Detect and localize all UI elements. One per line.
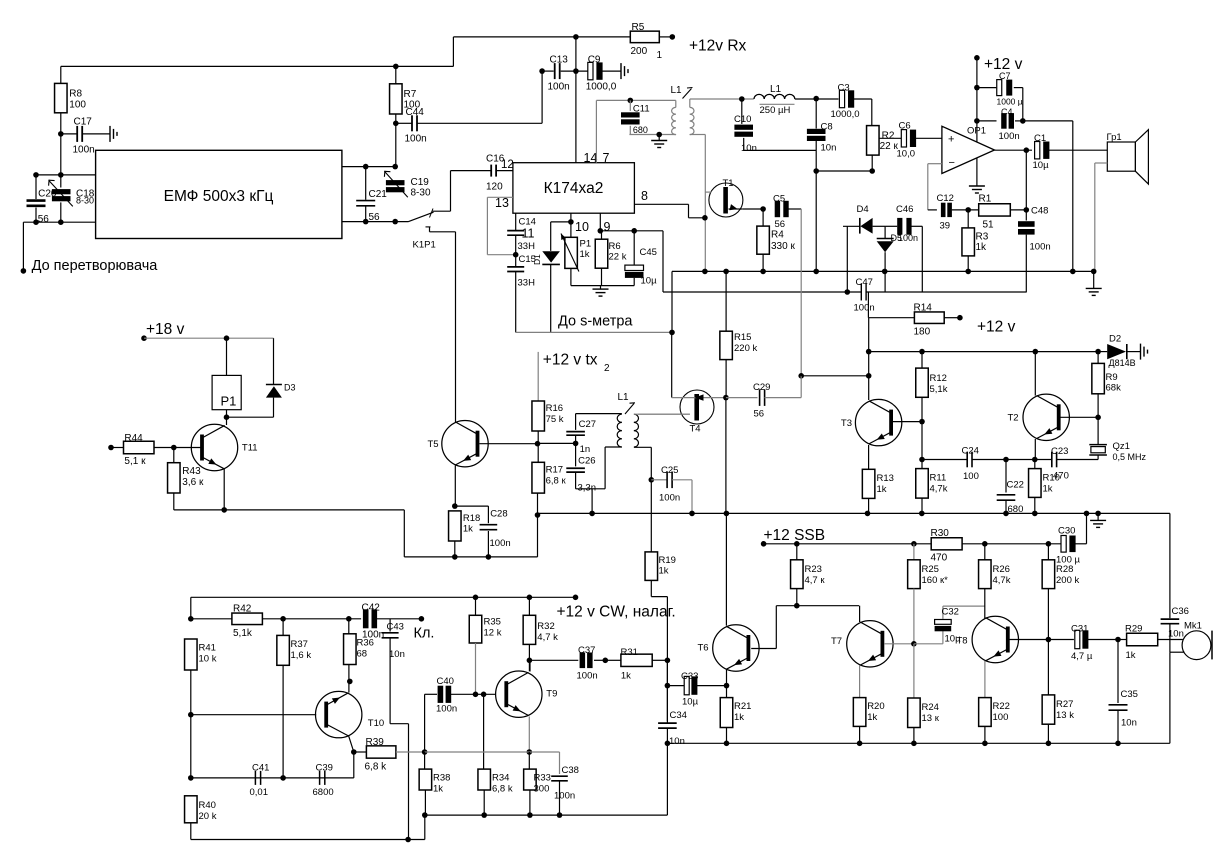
node R32 bottom [527,658,533,664]
svg-text:6800: 6800 [313,787,334,798]
node T3 collector mid [866,373,872,379]
node C47 left [845,289,851,295]
svg-text:C13: C13 [550,55,569,66]
wire s-meter drop [671,332,673,397]
capacitor C5 [773,194,801,231]
ground G2 at C9 [621,63,628,79]
svg-text:R6: R6 [609,241,621,252]
svg-text:1k: 1k [976,242,988,253]
label pin 8 [641,189,648,203]
resistor R38 [419,752,450,815]
svg-text:C4: C4 [1001,107,1013,117]
svg-text:T4: T4 [690,424,701,435]
svg-text:6,8 k: 6,8 k [492,784,513,795]
svg-text:5,1 к: 5,1 к [124,456,146,467]
node C19 bottom [392,219,398,225]
transistor T11 [191,424,257,470]
node R1 right [1024,207,1030,213]
node relay top [224,335,230,341]
svg-text:R43: R43 [182,466,201,477]
wire +12 rail right [869,351,1098,353]
wire R1 right [1010,209,1026,211]
capacitor C39 [313,763,334,799]
trimmer arrow L1 [683,88,693,99]
svg-text:D2: D2 [1109,334,1121,345]
svg-text:R33: R33 [534,773,551,784]
wire R12 node down [921,422,923,469]
capacitor C42 [362,603,422,641]
node T8 base [1046,637,1052,643]
node R25 top [911,541,917,547]
node C24 left [919,457,925,463]
speaker Gr1 [1107,130,1149,184]
svg-text:10n: 10n [821,143,837,154]
wire bus right extension [1098,513,1170,618]
svg-text:1: 1 [657,50,663,61]
svg-text:1k: 1k [877,484,887,495]
node bus speaker gnd [1091,269,1097,275]
capacitor C1 [995,133,1108,171]
node +12v Rx terminal [670,34,676,40]
svg-text:100: 100 [69,100,86,111]
label +12 v mid [977,319,1016,336]
resistor R19 [645,552,676,581]
resistor R6 [595,231,626,268]
wire T1 emitter [729,204,764,210]
node D5 bus1 [882,269,888,275]
svg-text:75 k: 75 k [546,414,564,425]
wire T6 base path [751,606,859,649]
svg-text:12: 12 [501,159,514,171]
resistor R27 [1042,695,1074,743]
node T10 emitter top [347,679,353,685]
wire T2 emitter [1034,439,1036,460]
resistor R5 [630,22,662,61]
capacitor C30 [1056,513,1087,565]
node converter terminal [21,268,27,274]
wire R42 to C42 [283,618,361,620]
svg-text:51: 51 [983,220,995,231]
svg-text:C43: C43 [387,622,404,633]
wire bottom rail B [191,823,425,840]
node Kl terminal [419,616,425,622]
svg-text:C33: C33 [681,671,698,682]
svg-text:R7: R7 [404,89,417,100]
wire R14 rail [868,318,870,352]
svg-text:К174ха2: К174ха2 [544,180,604,197]
resistor R18 [449,511,481,557]
svg-text:R25: R25 [922,564,939,575]
capacitor C20 [27,175,57,225]
wire C40 left drop [424,694,426,752]
svg-text:C26: C26 [578,456,595,467]
svg-text:C25: C25 [661,465,678,476]
svg-text:C5: C5 [773,194,785,205]
node C44 top [539,68,545,74]
capacitor C46 [896,204,922,243]
node C33 right [724,683,730,689]
node C1 out junction [1024,147,1030,153]
svg-text:10n: 10n [1121,718,1137,729]
svg-text:R13: R13 [877,473,894,484]
node C5 left [760,206,766,212]
label +12 v top [984,56,1023,73]
svg-text:R38: R38 [433,773,450,784]
node R23 bottom [794,603,800,609]
svg-text:C44: C44 [406,107,425,118]
wire pin10 to D1 [551,221,571,223]
wire C37 line [529,659,578,661]
wire pin9 [599,213,601,231]
node micbus R24 [911,741,917,747]
svg-text:2: 2 [604,363,610,374]
wire C11 bottom [629,134,675,136]
svg-text:C17: C17 [74,117,93,128]
svg-text:C41: C41 [252,763,269,774]
label pin 7 [603,151,610,165]
svg-text:120: 120 [486,182,503,193]
wire C46 down [921,226,923,292]
svg-text:L1: L1 [671,85,683,96]
node T2 collector top [1033,349,1039,355]
wire rail step down [404,510,537,557]
node T10 base rail [188,712,194,718]
resistor R42 [191,604,283,640]
node bus C4 [1070,269,1076,275]
ground G7 bus right [1086,271,1102,295]
svg-text:5,1k: 5,1k [930,384,948,395]
svg-text:R11: R11 [930,473,947,484]
svg-text:R44: R44 [124,433,143,444]
node bus C30 [1084,511,1090,517]
svg-text:8: 8 [641,189,648,203]
wire speaker return [1095,163,1108,271]
svg-text:13 k: 13 k [1056,710,1074,721]
wire R17 to bus [537,493,539,515]
svg-text:P1: P1 [580,239,592,250]
node C33 left [665,683,671,689]
svg-text:100n: 100n [577,671,598,682]
switch K1P1 lower contact [426,227,456,232]
wire pin9 line [600,230,663,232]
node pin10 [568,219,574,225]
svg-text:До перетворювача: До перетворювача [32,258,159,274]
svg-text:100n: 100n [405,133,427,144]
capacitor C11 [621,100,650,135]
label C26 [578,456,595,467]
arrow T4 emitter [695,394,704,400]
resistor R10 [1029,460,1060,514]
svg-text:10 k: 10 k [199,654,217,665]
svg-text:+12 v CW, налаг.: +12 v CW, налаг. [557,604,676,621]
wire T3 base [893,421,922,423]
node bus C25 [689,511,695,517]
label +12v Rx [689,38,747,55]
node C28 rail [486,554,492,560]
wire mic return [1170,652,1185,743]
wire C43 jog down [390,724,408,840]
svg-text:10n: 10n [669,736,685,747]
node bus C8 [813,269,819,275]
svg-text:+12 SSB: +12 SSB [764,527,826,544]
capacitor C41 [250,763,270,799]
wire rail to bus riser [537,516,539,557]
svg-text:1k: 1k [463,524,473,535]
wire C44 riser [541,71,543,123]
svg-text:1n: 1n [580,444,591,455]
svg-text:R31: R31 [621,647,638,658]
wire T5 base [480,443,538,445]
node T3 rail left [866,349,872,355]
transistor T2 [1008,394,1070,440]
wire op-amp V+ and ground [976,58,978,182]
svg-text:8-30: 8-30 [76,196,94,206]
node T7 base [911,641,917,647]
node R39 left [351,749,357,755]
capacitor C37 [577,645,606,682]
node T5 base junction [535,441,541,447]
node C13 junction [573,68,579,74]
resistor R41 [185,639,217,670]
relay P1 box [212,375,241,409]
svg-text:0,5 MHz: 0,5 MHz [1113,452,1147,462]
wire R14 riser [868,292,914,318]
label pin 10 [575,220,589,234]
node C27-C26 junction [573,441,579,447]
wire C5 line to T3 [801,376,869,398]
node C20 bottom [33,219,39,225]
node s-meter bus1 [669,330,675,336]
node T11 emitter rail [221,507,227,513]
svg-text:R19: R19 [659,555,676,566]
svg-text:160 к*: 160 к* [922,575,949,586]
resistor R9 [1092,352,1121,418]
svg-text:200 k: 200 k [1056,575,1079,586]
capacitor C13 [542,55,588,93]
resistor R14 [914,303,945,338]
svg-text:C31: C31 [1071,624,1088,635]
wire R41 down [190,670,192,778]
node bus R15 [723,269,729,275]
svg-text:13 к: 13 к [922,713,940,724]
svg-text:R27: R27 [1056,699,1073,710]
node rail B C43 [405,837,411,843]
svg-text:39: 39 [940,221,951,232]
svg-text:C45: C45 [640,247,657,258]
svg-text:R21: R21 [734,701,751,712]
svg-text:1,6 k: 1,6 k [291,650,312,661]
wire +12vtx [537,352,539,401]
wire EMF right upper stub [342,166,395,168]
wire bus2 [663,291,861,293]
wire T11 emitter rail [174,469,404,510]
wire L1 sec bottom to T1 base [690,135,706,272]
wire rail A [425,814,668,816]
wire T10 coll to C41 line [353,752,355,778]
resistor R2 [867,126,899,156]
svg-text:+12v Rx: +12v Rx [689,38,747,55]
svg-text:330 к: 330 к [771,241,795,252]
node T11 base [171,445,177,451]
label C15 [519,254,536,265]
wire R25 node down [913,644,915,698]
node R12 top [919,349,925,355]
svg-text:6,8 к: 6,8 к [546,476,567,487]
svg-text:R17: R17 [546,465,563,476]
wire ssb rail right [962,543,1063,545]
svg-text:C1: C1 [1034,133,1046,144]
svg-text:T10: T10 [368,718,384,729]
ground G6 at D2 [1141,344,1148,360]
svg-text:T7: T7 [831,636,842,647]
wire switch to C16 [432,171,491,212]
svg-text:C10: C10 [734,114,751,125]
capacitor C12 [928,193,979,232]
svg-text:1k: 1k [1043,484,1053,495]
resistor R44 [111,433,202,467]
resistor R3 [962,210,989,272]
node C41 line left [188,775,194,781]
wire T7 collector [859,606,861,622]
wire R34 feed [483,694,485,769]
svg-text:C23: C23 [1051,446,1068,457]
svg-text:R2: R2 [882,131,895,142]
svg-text:C14: C14 [519,217,536,228]
capacitor C32 [914,606,985,644]
resistor R40 [185,796,217,823]
svg-text:200: 200 [631,46,648,57]
wire lower bus [538,512,1099,514]
svg-text:4,7k: 4,7k [930,484,948,495]
node bus gnd right [1095,511,1101,517]
wire T11 collector [223,424,225,427]
svg-text:33Н: 33Н [518,278,536,289]
node bus R11 [919,511,925,517]
wire T10 collector [349,736,354,752]
wire upper left stub [36,174,96,176]
svg-text:470: 470 [931,553,948,564]
node R39-C40 junction [422,749,428,755]
wire op-amp minus [928,164,942,210]
svg-text:100: 100 [963,471,979,482]
ground G4 below R6 [593,286,609,297]
capacitor C19 trimmer [384,171,431,199]
node C8 top [813,96,819,102]
svg-text:C27: C27 [579,419,596,430]
svg-text:3,3n: 3,3n [578,483,597,494]
svg-text:1k: 1k [580,249,590,260]
svg-text:P1: P1 [221,394,237,409]
node C19 top [392,164,398,170]
svg-text:C19: C19 [411,177,430,188]
node C21 top [363,164,369,170]
resistor R34 [478,769,513,815]
node +12CW terminal [573,595,579,601]
wire T2 base [1061,416,1099,418]
wire D4 node [846,226,848,292]
node C10 top [739,96,745,102]
svg-text:C30: C30 [1058,526,1075,537]
wire pin8 [634,204,705,218]
transistor T1 [709,178,743,217]
svg-text:R16: R16 [546,403,563,414]
svg-text:K1P1: K1P1 [413,240,436,251]
node +12v mid terminal [957,315,963,321]
transistor T8 [957,616,1019,662]
node R32 top [527,595,533,601]
node C45 top [631,228,637,234]
svg-text:R28: R28 [1056,564,1073,575]
wire R14 right [944,317,960,319]
svg-text:10µ: 10µ [682,697,699,708]
svg-text:R10: R10 [1043,473,1060,484]
wire relay bottom [227,410,274,418]
ground G3 below C11 [651,135,667,148]
svg-text:C36: C36 [1172,606,1189,617]
ground G5 below op-amp [969,182,985,193]
label EMF [164,188,274,205]
node T1 base-pin8 junction [702,215,708,221]
svg-text:100n: 100n [854,303,875,314]
node micbus C35 [1115,741,1121,747]
wire T7 emitter [859,666,861,698]
svg-text:100n: 100n [554,791,575,802]
svg-text:10µ: 10µ [641,276,658,287]
wire T6 collector [725,513,727,625]
svg-text:+18 v: +18 v [146,321,185,338]
svg-text:C34: C34 [670,710,687,721]
svg-text:0,01: 0,01 [250,787,269,798]
svg-text:1k: 1k [734,712,744,723]
svg-text:4,7 µ: 4,7 µ [1071,651,1093,662]
svg-text:+12 v: +12 v [977,319,1016,336]
node micbus R20 [857,741,863,747]
wire R15 node down [725,398,727,514]
capacitor C43 [382,619,405,724]
node C17 junction [58,131,64,137]
svg-text:8-30: 8-30 [411,188,431,199]
svg-text:R30: R30 [931,528,950,539]
svg-text:12 k: 12 k [484,628,502,639]
svg-text:C7: C7 [999,71,1011,81]
node micbus C34 [665,741,671,747]
svg-text:220 k: 220 k [734,343,757,354]
node T2 emitter junction [1032,457,1038,463]
wire R39 right [396,751,425,753]
capacitor C17 [61,117,110,156]
wire pin14 vertical [575,37,577,163]
wire bus1 left drop [671,271,673,332]
wire C10 bottom to C8 [744,149,817,151]
node D2-R9 junction [1095,349,1101,355]
resistor R22 [979,698,1010,744]
wire C3 to R2 [871,99,873,126]
svg-text:100n: 100n [999,131,1020,142]
wire L3 sec top to T4 [634,413,690,415]
svg-text:56: 56 [775,219,786,230]
svg-text:D4: D4 [857,204,869,215]
capacitor C7 [977,71,1023,107]
transistor T3 [841,399,902,445]
resistor R23 [791,544,826,606]
inductor L1 secondary [690,99,694,135]
label +12 v CW [557,604,676,621]
wire relay to T11 [226,417,228,425]
svg-text:R9: R9 [1106,372,1118,383]
node rail A R38 [422,812,428,818]
svg-text:R42: R42 [233,604,252,615]
wire C27 top to L1 [576,413,622,415]
